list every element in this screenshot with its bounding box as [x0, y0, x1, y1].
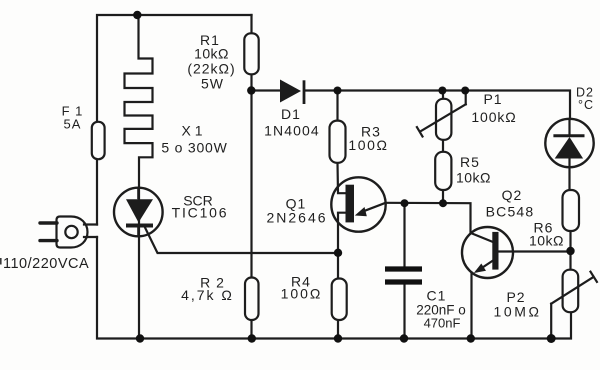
svg-text:D1: D1 — [281, 106, 301, 122]
svg-text:5W: 5W — [201, 76, 224, 92]
svg-text:100kΩ: 100kΩ — [471, 109, 516, 125]
svg-text:5 o 300W: 5 o 300W — [161, 140, 227, 156]
svg-text:P1: P1 — [483, 91, 502, 107]
svg-text:110/220VCA: 110/220VCA — [3, 256, 89, 272]
svg-text:(22kΩ): (22kΩ) — [187, 61, 235, 77]
svg-text:1N4004: 1N4004 — [264, 123, 320, 139]
svg-text:5A: 5A — [64, 117, 82, 132]
svg-text:10kΩ: 10kΩ — [529, 233, 564, 249]
svg-text:10MΩ: 10MΩ — [493, 304, 541, 320]
svg-text:10kΩ: 10kΩ — [194, 46, 229, 62]
svg-text:100Ω: 100Ω — [348, 137, 388, 153]
svg-text:4,7k Ω: 4,7k Ω — [181, 287, 234, 303]
svg-text:X 1: X 1 — [181, 123, 202, 139]
svg-text:BC548: BC548 — [486, 204, 535, 220]
svg-text:TIC106: TIC106 — [172, 205, 229, 221]
svg-text:470nF: 470nF — [424, 316, 461, 331]
svg-text:2N2646: 2N2646 — [266, 210, 327, 226]
svg-text:°C: °C — [578, 98, 594, 112]
svg-text:R5: R5 — [460, 154, 480, 170]
svg-text:Q2: Q2 — [502, 187, 523, 203]
svg-text:10kΩ: 10kΩ — [456, 170, 491, 186]
svg-text:100Ω: 100Ω — [281, 286, 323, 302]
svg-text:C1: C1 — [427, 288, 447, 304]
